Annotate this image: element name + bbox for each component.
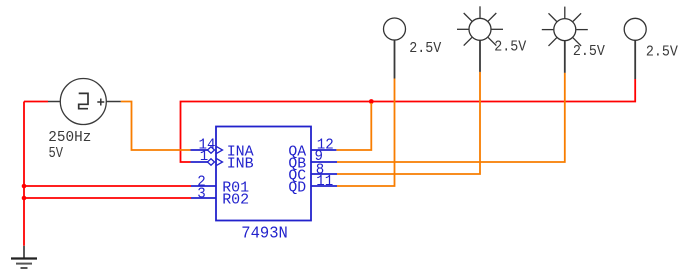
svg-text:2.5V: 2.5V (409, 40, 441, 57)
svg-text:250Hz: 250Hz (48, 129, 91, 146)
svg-text:11: 11 (316, 173, 333, 190)
svg-text:2.5V: 2.5V (494, 38, 526, 55)
svg-text:2.5V: 2.5V (646, 43, 678, 60)
svg-text:R02: R02 (222, 191, 249, 208)
svg-text:INB: INB (227, 155, 254, 172)
svg-text:5V: 5V (49, 145, 64, 162)
svg-text:1: 1 (200, 148, 209, 165)
svg-text:QD: QD (288, 179, 306, 196)
svg-text:3: 3 (197, 185, 206, 202)
svg-text:2.5V: 2.5V (573, 43, 605, 60)
svg-text:7493N: 7493N (241, 225, 287, 244)
